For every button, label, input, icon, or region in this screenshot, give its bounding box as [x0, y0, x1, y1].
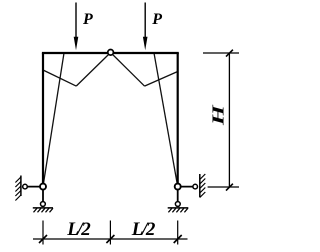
svg-text:L/2: L/2	[66, 219, 91, 240]
svg-text:L/2: L/2	[131, 219, 156, 240]
svg-text:P: P	[151, 11, 162, 28]
svg-text:P: P	[82, 11, 93, 28]
svg-text:H: H	[209, 104, 227, 127]
